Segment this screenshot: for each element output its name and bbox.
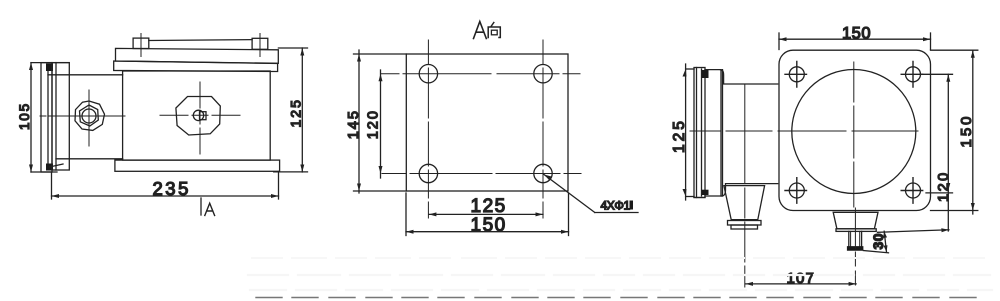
svg-text:120: 120: [936, 170, 952, 202]
hole bottom-right: [534, 164, 552, 182]
fitting centerline left: [744, 188, 746, 287]
bolt hole TL (right view): [785, 62, 807, 88]
dimension 150 top dim line: [779, 33, 931, 50]
plate stud top filled (right view): [702, 70, 709, 78]
title A: [474, 22, 487, 39]
fitting rings left: [728, 221, 762, 230]
svg-text:120: 120: [366, 109, 382, 139]
big circle (right view): [792, 70, 916, 194]
hole top-right: [534, 65, 552, 83]
plate stud top (filled): [46, 64, 53, 72]
hex port fitting (left view): [75, 101, 105, 130]
svg-text:235: 235: [153, 178, 191, 199]
plate block (left view): [52, 63, 69, 170]
extension line to 120 dim: [878, 228, 949, 232]
svg-text:150: 150: [842, 25, 871, 43]
dimension 120 right dim line: [920, 74, 953, 231]
hole top-left: [419, 65, 437, 83]
neck (right view profile): [720, 70, 777, 196]
centerline vertical left holes: [427, 40, 429, 218]
vertical centerline (right view): [853, 62, 855, 207]
hex port centerline vertical: [88, 90, 90, 146]
fitting stem: [849, 231, 862, 246]
svg-text:107: 107: [787, 270, 816, 287]
view direction arrow A: [200, 198, 202, 215]
bolt hole BL (right view): [785, 178, 807, 204]
neck (left view): [48, 75, 123, 159]
fitting centerline vertical: [854, 208, 856, 285]
dimension 125 left-view dim line: [274, 48, 308, 172]
boss centerline horizontal: [160, 114, 240, 116]
svg-text:125: 125: [671, 118, 688, 153]
left plate (left view): [41, 63, 52, 172]
dimension 107 dim line: [746, 282, 857, 286]
boss inner circle: [193, 110, 203, 120]
trapezoid fitting left (right view): [724, 186, 765, 220]
dimension 145 dim line: [354, 50, 407, 193]
dimension 150 right dim line: [931, 50, 978, 214]
main body (left view): [123, 71, 271, 160]
boss inner square: [200, 112, 207, 120]
dimension 125 middle dim line: [429, 212, 543, 216]
bottom fitting under plate (right view): [833, 212, 878, 231]
svg-text:150: 150: [958, 113, 975, 147]
bottom flange (left view): [115, 160, 280, 171]
octagon boss (left view): [176, 97, 220, 136]
svg-text:145: 145: [346, 109, 362, 139]
faint watermark row 1: [252, 257, 984, 259]
centerline horizontal top holes: [381, 73, 580, 75]
leader 4xphi11: [544, 175, 638, 213]
top flange band 2 (left view): [114, 61, 278, 72]
svg-text:150: 150: [471, 215, 507, 236]
top bolt left (left view): [133, 34, 149, 57]
top flange band 1 (left view): [116, 48, 279, 63]
internal line at x745: [744, 84, 746, 184]
hole bottom-left: [419, 164, 437, 182]
bottom cropped text row: [256, 297, 976, 299]
dimension 120 dim line: [379, 70, 383, 178]
body block (right view profile): [694, 70, 723, 198]
plate stud bottom (filled): [46, 164, 53, 171]
mounting plate (right view profile): [694, 68, 705, 198]
view direction label A: [205, 203, 215, 215]
centerline horizontal bottom holes: [382, 173, 581, 175]
hex port centerline horizontal: [40, 115, 125, 117]
svg-text:30: 30: [870, 233, 886, 250]
top bolt right (left view): [252, 34, 268, 57]
centerline vertical right holes: [542, 40, 544, 218]
bolt hole TR (right view): [901, 62, 923, 88]
flange plate (right view): [779, 50, 931, 210]
horizontal centerline (right view): [690, 130, 918, 132]
plate stud bottom filled (right view): [702, 190, 709, 195]
faint watermark row 2: [248, 274, 990, 276]
dimension 150 middle dim line: [406, 193, 569, 236]
dimension 105 dim line: [29, 63, 69, 172]
stud bottom tick: [50, 164, 64, 167]
dimension 125 right-view dim line: [683, 64, 695, 200]
plate outline (middle view): [406, 54, 568, 191]
svg-text:125: 125: [471, 196, 507, 217]
svg-text:4XΦ1: 4XΦ1: [601, 199, 631, 213]
dimension 30 dim line: [863, 231, 888, 253]
title xiang: [488, 23, 500, 38]
svg-text:125: 125: [288, 98, 304, 127]
bolt hole BR (right view): [901, 178, 923, 204]
boss centerline vertical: [199, 82, 201, 154]
stem plug cap filled: [847, 246, 864, 251]
top cover line between bolts: [149, 39, 252, 42]
svg-text:105: 105: [17, 102, 32, 130]
dimension 235 dim line: [52, 172, 279, 200]
faint watermark row 3: [250, 289, 992, 291]
